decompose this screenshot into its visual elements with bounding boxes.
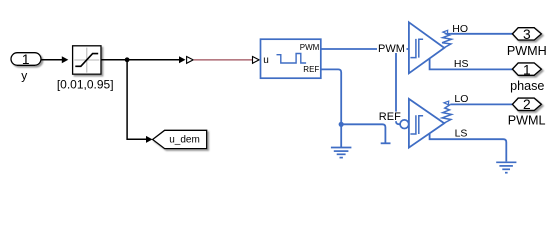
outport 3 (PWMH): [512, 28, 541, 40]
junction dot REF: [339, 122, 344, 127]
svg-text:HO: HO: [452, 23, 468, 35]
ground G1: [331, 148, 352, 158]
port arrow (open triangle) 1: [187, 57, 194, 64]
svg-text:HS: HS: [454, 58, 469, 70]
U1 zigzag arrowhead: [443, 30, 448, 34]
wire LS to ground G2: [430, 134, 507, 162]
goto tag u_dem: [153, 130, 207, 148]
wire REF output down to ground: [321, 69, 341, 147]
gate driver U1 (high side): [409, 22, 444, 73]
wire branch down to low driver input: [396, 49, 400, 124]
svg-text:LS: LS: [455, 128, 468, 140]
saturation curve: [75, 54, 98, 67]
wire REF branch to reference terminator: [341, 124, 385, 142]
inport 1 (y): [11, 53, 41, 66]
svg-text:PWM: PWM: [378, 43, 405, 55]
U1 step icon: [410, 39, 423, 58]
svg-text:u_dem: u_dem: [169, 134, 200, 145]
svg-text:y: y: [21, 69, 27, 83]
saturation block: [73, 46, 101, 74]
svg-text:PWML: PWML: [508, 113, 546, 127]
svg-text:3: 3: [523, 27, 531, 42]
svg-text:[0.01,0.95]: [0.01,0.95]: [57, 78, 114, 92]
junction dot: [125, 57, 130, 62]
svg-text:u: u: [263, 55, 269, 66]
outport 2 (PWML): [512, 98, 541, 110]
wire label PWM: [377, 43, 407, 53]
ground G2: [496, 162, 516, 172]
svg-text:1: 1: [523, 62, 531, 77]
reference terminator bar: [381, 142, 391, 144]
U2 step icon: [410, 115, 423, 134]
wire HS to outport 1: [430, 58, 513, 69]
svg-text:2: 2: [523, 97, 531, 112]
wire branch down to u_dem: [127, 60, 147, 140]
gate driver U2 (low side): [409, 99, 444, 148]
red connection line: [194, 59, 253, 61]
svg-text:PWM: PWM: [300, 43, 320, 52]
svg-text:PWMH: PWMH: [507, 44, 547, 58]
wire HO to outport 3: [450, 33, 512, 35]
outport 1 (phase): [512, 63, 541, 75]
wire PWM output to top driver: [321, 48, 408, 50]
U2 input bubble: [400, 120, 409, 129]
port arrow (open triangle) 2: [253, 57, 260, 64]
saturation axes: [86, 48, 88, 73]
svg-text:LO: LO: [454, 93, 468, 105]
svg-text:REF: REF: [303, 65, 319, 74]
svg-text:1: 1: [22, 52, 30, 67]
wire label REF: [378, 112, 401, 122]
wire LO to outport 2: [450, 103, 512, 105]
wire inport to saturation: [41, 59, 63, 61]
pulse icon: [277, 54, 307, 64]
svg-text:phase: phase: [510, 79, 544, 93]
wire saturation to branch arrow: [101, 59, 180, 61]
svg-text:REF: REF: [379, 111, 401, 123]
U2 zigzag arrowhead: [444, 101, 449, 105]
U1 output resistor zigzag: [442, 33, 451, 47]
PWM generator block: [261, 39, 321, 78]
U2 output resistor zigzag: [442, 104, 451, 123]
